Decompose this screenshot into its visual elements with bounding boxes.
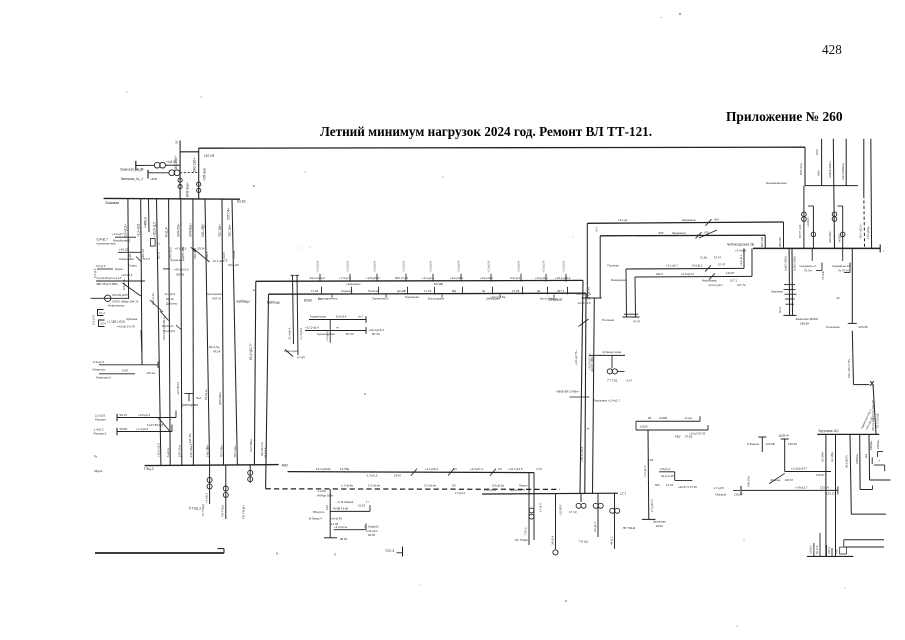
breaker box small — [151, 239, 156, 247]
station tick S8 on line-1 — [520, 274, 522, 282]
wire through generator — [91, 297, 129, 299]
wire stub x=141 lower — [140, 330, 143, 352]
wire tick y=397 — [570, 396, 590, 398]
svg-text:+6в-37,5 27,46: +6в-37,5 27,46 — [678, 485, 697, 489]
station tick S1 on line-1 — [319, 274, 321, 282]
wire riser x=833.3 (full) — [833, 139, 834, 249]
svg-text:Чердаклы 2Л: Чердаклы 2Л — [832, 264, 850, 268]
svg-text:ЗЛ,34: ЗЛ,34 — [197, 247, 205, 251]
wire feeder F5 from bus Базовая — [181, 199, 182, 465]
svg-text:325-Л5вУ: 325-Л5вУ — [828, 231, 832, 243]
svg-text:ТУ ТЭЦ2: ТУ ТЭЦ2 — [201, 504, 205, 517]
svg-text:2х(АС-330)+: 2х(АС-330)+ — [793, 255, 797, 271]
svg-text:0,5Р: 0,5Р — [138, 167, 144, 171]
wire pair drop x=297 — [297, 275, 298, 355]
svg-text:+13,1+j13,4: +13,1+j13,4 — [576, 292, 592, 296]
crossing mark Ж — [870, 381, 874, 386]
svg-text:120,5В: 120,5В — [766, 442, 775, 446]
svg-text:2,9+j13,2: 2,9+j13,2 — [484, 488, 496, 492]
wire feeder F9 from bus Базовая — [232, 199, 237, 465]
svg-text:+0,5+j0,5: +0,5+j0,5 — [175, 247, 187, 251]
svg-text:6+j2,3+: 6+j2,3+ — [166, 447, 170, 457]
wire rows y=421 — [636, 420, 700, 422]
wire stub x=555.5 — [555, 494, 557, 549]
svg-text:ЦРП-ЗВ2+: ЦРП-ЗВ2+ — [218, 391, 222, 405]
svg-text:62Л-185: 62Л-185 — [760, 236, 764, 247]
svg-text:Михайловка2: Михайловка2 — [113, 239, 131, 243]
svg-text:257,04+: 257,04+ — [227, 208, 231, 220]
svg-text:ВЛ,39: ВЛ,39 — [177, 272, 185, 276]
svg-text:С3,4: С3,4 — [100, 322, 106, 326]
wire drop to Бугульма x=876 — [873, 385, 876, 434]
svg-text:Кузнечиха: Кузнечиха — [171, 258, 185, 262]
svg-text:189,5#: 189,5# — [800, 322, 809, 326]
svg-text:17,04: 17,04 — [424, 289, 432, 293]
svg-text:363-24Л: 363-24Л — [778, 237, 782, 247]
svg-text:4Л,34: 4Л,34 — [213, 350, 221, 354]
svg-text:Сергиевская: Сергиевская — [206, 292, 223, 296]
svg-text:1,7+j0,4в: 1,7+j0,4в — [341, 484, 353, 488]
wire row С.Омара — [334, 529, 367, 531]
svg-text:Грозящая: Грозящая — [826, 325, 840, 329]
svg-text:+41+j12,3: +41+j12,3 — [450, 276, 463, 280]
wire riser x=821.6 — [821, 139, 823, 186]
svg-text:Нефтекачка: Нефтекачка — [108, 304, 125, 308]
svg-text:+4+j0,3: +4+j0,3 — [204, 493, 208, 503]
svg-text:17,04: 17,04 — [311, 289, 319, 293]
svg-text:84,2-j25Л+: 84,2-j25Л+ — [845, 455, 849, 468]
svg-text:68,6/64,4+: 68,6/64,4+ — [260, 441, 264, 456]
svg-text:Тюрнясево: Тюрнясево — [405, 295, 420, 299]
wire feeder Бугульма x=850 — [850, 434, 851, 514]
wire diagonal lower — [160, 311, 169, 321]
svg-text:97в-39-j10Л: 97в-39-j10Л — [112, 293, 128, 297]
svg-text:+43,29: +43,29 — [119, 247, 129, 251]
svg-text:15,03: 15,03 — [358, 503, 365, 507]
wire row Рассвет-1 — [117, 417, 176, 419]
svg-text:ОРВИНЯ: ОРВИНЯ — [549, 298, 563, 302]
svg-text:7Б7-ЗМ+: 7Б7-ЗМ+ — [218, 224, 222, 237]
generator G2 (double circle) — [169, 170, 175, 176]
wire drop x=583 to lower tie — [580, 280, 583, 493]
wire diagonal branch — [123, 283, 141, 296]
wire connector row1 to bus — [743, 248, 745, 268]
svg-text:14Б-З独+: 14Б-З独+ — [204, 444, 209, 457]
wire Грозящая drop lower — [852, 331, 853, 385]
svg-text:Пал: Пал — [196, 396, 202, 400]
cross tick 3 — [785, 298, 795, 300]
svg-text:1517-187-17ЛУ+: 1517-187-17ЛУ+ — [847, 358, 851, 378]
svg-text:+4Л: +4Л — [835, 549, 839, 554]
tick ДОБ — [781, 438, 789, 440]
station tick S5 on line-2 — [434, 287, 436, 295]
svg-text:363-185+: 363-185+ — [174, 156, 178, 170]
CT circles on column A — [178, 178, 182, 182]
svg-text:+2Л-ЗВ,14: +2Л-ЗВ,14 — [176, 382, 180, 395]
svg-text:+41+j1,2 Ба: +41+j1,2 Ба — [490, 295, 505, 299]
svg-text:В9+j4,2+: В9+j4,2+ — [313, 510, 325, 514]
bracket mark 2 — [849, 263, 851, 273]
wire row Юматово 1 — [99, 364, 158, 366]
svg-text:+3,1+j2,4: +3,1+j2,4 — [402, 260, 406, 272]
terminal bar Рассвет-2 — [116, 428, 118, 435]
svg-text:44-j3,2: 44-j3,2 — [609, 536, 613, 545]
svg-text:Дубьязы: Дубьязы — [166, 302, 177, 306]
wire row y=237 — [115, 236, 136, 238]
svg-text:+15,1+j29,4: +15,1+j29,4 — [555, 276, 571, 280]
wire CT column x=803.9 — [803, 186, 805, 249]
terminal bar left — [740, 486, 742, 495]
wire right horizontal y=480 — [870, 479, 891, 481]
svg-text:Турминская: Турминская — [310, 315, 327, 319]
wire Заинск column 1 — [788, 248, 791, 315]
CT pair on stub 3 — [248, 470, 253, 475]
station tick S1 on line-2 — [321, 287, 323, 295]
svg-text:1,7+j0,5: 1,7+j0,5 — [714, 486, 725, 490]
svg-text:АС-240+: АС-240+ — [821, 451, 825, 462]
svg-text:Новозареч: Новозареч — [347, 282, 361, 286]
svg-text:Бугульма 110: Бугульма 110 — [819, 429, 839, 433]
svg-text:2в: 2в — [837, 296, 841, 300]
svg-text:7Б7-ЗН+: 7Б7-ЗН+ — [233, 445, 237, 457]
svg-text:Летний минимум нагрузок 2024 г: Летний минимум нагрузок 2024 год. Ремонт… — [320, 124, 652, 139]
wire stub b5 — [831, 548, 833, 556]
svg-text:Заинская_№_1: Заинская_№_1 — [121, 177, 144, 181]
svg-text:Черемшанская: Черемшанская — [766, 181, 787, 185]
wire feeder Бугульма x=825.9 — [825, 434, 827, 556]
CT circle on 555.5 — [553, 550, 558, 555]
svg-text:Заинская: Заинская — [653, 519, 666, 523]
svg-text:+3,1+j2,4: +3,1+j2,4 — [457, 260, 461, 272]
svg-text:24Л-37а+: 24Л-37а+ — [177, 223, 181, 237]
wire row y=281 ladder top — [96, 280, 145, 282]
svg-text:Базовая: Базовая — [106, 201, 120, 205]
wire stub b1 — [813, 543, 815, 556]
wire feeder F7 from bus Базовая — [205, 199, 210, 465]
wire Полянки row-2 — [635, 275, 752, 278]
station tick S7 on line-2 — [492, 287, 494, 295]
svg-text:3,8+j5,4: 3,8+j5,4 — [660, 467, 670, 471]
svg-text:+4,2+j0,4+: +4,2+j0,4+ — [334, 525, 348, 529]
svg-text:Арбанка: Арбанка — [126, 317, 138, 321]
svg-text:240/Ба+: 240/Ба+ — [870, 440, 873, 450]
svg-text:Карамалы: Карамалы — [682, 218, 696, 222]
wire step vertical — [674, 472, 676, 481]
svg-text:9а: 9а — [482, 289, 486, 293]
hook on y=489.5 — [872, 486, 874, 490]
svg-text:НАЯдн 163н: НАЯдн 163н — [317, 493, 334, 497]
tick В-Ключи — [176, 325, 181, 330]
bus Бугульма 110 — [817, 433, 879, 435]
wire rows left bracket — [635, 421, 637, 430]
svg-text:Карамалы: Карамалы — [672, 231, 686, 235]
svg-text:+1,4+j0,9: +1,4+j0,9 — [136, 427, 148, 431]
svg-text:Приложение № 260: Приложение № 260 — [726, 109, 843, 124]
svg-text:2х25А: 2х25А — [640, 425, 648, 429]
wire feeder F2 from bus Базовая — [141, 199, 142, 365]
svg-text:9а: 9а — [537, 289, 541, 293]
svg-text:АБА: АБА — [816, 170, 820, 176]
svg-text:7Л-Ялв: 7Л-Ялв — [821, 271, 825, 280]
svg-text:+24,1+j13,1: +24,1+j13,1 — [708, 283, 723, 287]
svg-text:Чердаклы 2: Чердаклы 2 — [799, 264, 816, 268]
svg-text:В7,93: В7,93 — [346, 332, 354, 336]
wire bottom frame segment — [95, 552, 224, 554]
svg-text:2Б: 2Б — [648, 416, 652, 420]
svg-text:+9,8+j25,6: +9,8+j25,6 — [366, 276, 380, 280]
svg-text:+13ЛвЛ: +13ЛвЛ — [806, 217, 810, 227]
svg-text:24Л-3Ба+: 24Л-3Ба+ — [189, 223, 193, 237]
wire short stub x=148 — [148, 199, 151, 232]
wire top 500kV tie line — [199, 147, 805, 148]
svg-text:14УЛ: 14УЛ — [394, 474, 401, 478]
generator circle left — [105, 295, 111, 301]
svg-text:+0,5+j0,3: +0,5+j0,3 — [138, 413, 150, 417]
svg-text:97,82: 97,82 — [685, 434, 693, 438]
svg-text:139,5Р: 139,5Р — [734, 492, 743, 496]
svg-text:+3,1+j2,4: +3,1+j2,4 — [429, 260, 433, 272]
svg-text:В-Омар 4: В-Омар 4 — [309, 516, 322, 520]
svg-text:+3,1+j2,4: +3,1+j2,4 — [316, 260, 320, 272]
svg-text:+24Л-25а: +24Л-25а — [188, 433, 192, 445]
svg-text:Тюлячи: Тюлячи — [368, 289, 379, 293]
svg-text:24Л-ЗВа+: 24Л-ЗВа+ — [249, 438, 253, 452]
wire bottom tick Полянки 2 — [624, 313, 638, 315]
svg-text:+3,1+j2,4: +3,1+j2,4 — [517, 260, 521, 272]
wire end step Рассвет-1 — [175, 411, 177, 418]
station tick S2 on line-1 — [349, 274, 351, 282]
svg-text:З-Юдино: З-Юдино — [747, 442, 760, 446]
svg-text:ЗВУ-15-j2,9 ЗВ9+: ЗВУ-15-j2,9 ЗВ9+ — [96, 282, 119, 286]
wire Заинск column 2 — [791, 248, 794, 315]
svg-text:Кубенкутская: Кубенкутская — [603, 350, 622, 354]
svg-text:+14,7-j13,5: +14,7-j13,5 — [508, 467, 523, 471]
svg-text:Чистополь2: Чистополь2 — [309, 276, 325, 280]
CT pair on stub — [207, 478, 212, 483]
svg-text:+5,1+j2: +5,1+j2 — [618, 218, 628, 222]
svg-text:ВЛ,29: ВЛ,29 — [166, 297, 174, 301]
station tick S10 on line-2 — [567, 287, 569, 295]
scan speckles — [679, 13, 681, 15]
wire Тракторная stub — [188, 394, 190, 402]
svg-text:13,7-j29,8в: 13,7-j29,8в — [316, 467, 331, 471]
svg-text:428: 428 — [822, 42, 842, 57]
svg-text:ВУАЗ: ВУАЗ — [304, 298, 312, 302]
svg-text:+45,9+j21,9: +45,9+j21,9 — [174, 268, 189, 272]
wire step cluster y=480 — [675, 479, 693, 481]
generator lead G1 terminal bar — [135, 161, 137, 171]
box on bottom — [840, 547, 847, 554]
svg-text:+4,5+j0,7: +4,5+j0,7 — [112, 232, 124, 236]
wire ДОБ column — [784, 439, 786, 472]
wire right horizontal y=547 — [845, 546, 884, 548]
svg-text:14,5-j8,2: 14,5-j8,2 — [692, 264, 703, 268]
svg-text:Т2У-3: Т2У-3 — [385, 549, 394, 553]
wire stub x=529 Т2У — [528, 472, 530, 545]
svg-text:-0,9+j0,4: -0,9+j0,4 — [93, 360, 105, 364]
svg-text:Безводовка: Безводовка — [611, 278, 627, 282]
svg-text:+4,2-j27,4: +4,2-j27,4 — [470, 467, 483, 471]
svg-text:ЗЛ,2-j1Л: ЗЛ,2-j1Л — [228, 263, 239, 267]
svg-text:ЦК-ДВ: ЦК-ДВ — [397, 289, 406, 293]
CT pair on stub 2 — [223, 486, 228, 491]
svg-text:Тюрнясево 2: Тюрнясево 2 — [372, 297, 389, 301]
wire upper tie outer — [587, 222, 783, 223]
svg-text:9Л: 9Л — [453, 467, 457, 471]
svg-text:5Л-19,2+: 5Л-19,2+ — [204, 389, 208, 400]
svg-text:Кайбицы: Кайбицы — [267, 300, 281, 304]
svg-text:БакХран: БакХран — [772, 289, 784, 293]
bus ТЭЦ-3 110kV — [145, 465, 279, 466]
wire bottom tick Полянки — [623, 316, 640, 318]
wire riser x=846.2 — [845, 139, 847, 186]
svg-text:+3,1: +3,1 — [595, 226, 599, 232]
svg-text:5в-17: 5в-17 — [778, 306, 782, 313]
cross tick 4 — [784, 284, 795, 286]
svg-text:+4Л9,3: +4Л9,3 — [144, 217, 148, 228]
svg-text:ДОБ-4+: ДОБ-4+ — [779, 433, 790, 437]
svg-text:+1,4+j0,6: +1,4+j0,6 — [299, 328, 303, 340]
svg-text:6,1Л: 6,1Л — [144, 257, 150, 261]
svg-text:27,45: 27,45 — [666, 483, 673, 487]
station tick S2 on line-2 — [351, 287, 353, 295]
svg-text:2Б1 ИСД: 2Б1 ИСД — [113, 319, 125, 323]
svg-text:63,63: 63,63 — [237, 200, 246, 204]
svg-text:Юматово: Юматово — [93, 367, 106, 371]
svg-text:Н. В-Омар2: Н. В-Омар2 — [338, 500, 354, 504]
wire bottom tick Омары — [324, 537, 337, 539]
tick top x=292.5 — [291, 274, 295, 276]
svg-text:+12,2+j5,4: +12,2+j5,4 — [305, 326, 319, 330]
wire stub below bus x=209.6 — [209, 465, 211, 504]
bottom tick Заинск — [784, 314, 797, 316]
wire G2 dashed to second column — [180, 171, 199, 174]
wire CT column x=842.7 — [838, 205, 843, 207]
cross tick 1 — [784, 289, 796, 291]
svg-text:АС-185+: АС-185+ — [830, 451, 834, 462]
CT circle 813.4 — [811, 232, 816, 237]
tick Грозящая — [848, 322, 857, 324]
svg-text:9Л: 9Л — [452, 484, 456, 488]
wire drop Омары from dashed line — [329, 489, 331, 538]
slash on outer tie — [706, 219, 712, 226]
svg-text:21,5в: 21,5в — [700, 256, 707, 260]
tick below line-2 2 — [385, 294, 387, 297]
svg-text:120,57: 120,57 — [785, 478, 794, 482]
cross tick 5 — [786, 303, 795, 305]
svg-text:Чебоксарская 2В: Чебоксарская 2В — [727, 243, 755, 247]
wire trunk x=255 from main bus corner to ТЭЦ bus — [254, 281, 255, 464]
wire right corner drop to Чебоксарская bus — [804, 147, 806, 185]
svg-text:7Б7-ЗН+: 7Б7-ЗН+ — [228, 224, 232, 237]
svg-text:у1: у1 — [157, 242, 160, 246]
tick Ключищи — [191, 247, 196, 252]
bracket mark 1 — [821, 263, 823, 271]
svg-text:+41+j14,4: +41+j14,4 — [480, 276, 493, 280]
svg-text:0,3-j7,5: 0,3-j7,5 — [92, 315, 96, 325]
wire trunk x=268 from second bus to dashed line — [266, 294, 269, 489]
svg-text:68,6Л-4+: 68,6Л-4+ — [264, 446, 268, 458]
wire Мокрые row y=490.4 — [741, 489, 838, 491]
svg-text:Тресковка +2,4+j1,7: Тресковка +2,4+j1,7 — [594, 399, 621, 403]
svg-text:17,7: 17,7 — [620, 492, 626, 496]
wire generator G1 lead — [136, 164, 154, 166]
svg-text:АЖ-2ЭФЖА+: АЖ-2ЭФЖА+ — [841, 162, 845, 180]
wire stub x=598 — [597, 493, 599, 537]
wire arrow mark — [733, 489, 740, 491]
wire row1 end bracket — [365, 316, 367, 323]
slash on Полянки rows — [705, 265, 711, 271]
svg-text:Мокрая: Мокрая — [771, 478, 781, 482]
bus Базовая 110kV — [104, 197, 240, 200]
wire G1 to bus column — [166, 164, 181, 166]
svg-text:500: 500 — [659, 231, 664, 235]
wire З-Юдино stub — [761, 437, 763, 452]
svg-text:6+j2,3+: 6+j2,3+ — [164, 226, 168, 237]
svg-text:6+: 6+ — [94, 454, 98, 458]
svg-text:5,4+j3,4: 5,4+j3,4 — [336, 315, 347, 319]
end bracket С.Омара row — [365, 523, 367, 529]
tick below line-2 1 — [331, 294, 333, 297]
svg-text:7Б7-ЗМ+: 7Б7-ЗМ+ — [219, 445, 223, 458]
wire row2 end bracket — [365, 327, 367, 334]
terminal bar T2У-3 — [402, 547, 404, 557]
svg-text:Коваловка: Коваловка — [119, 257, 134, 261]
wire short jumper bus — [180, 151, 199, 153]
capacitor battery C1,2 symbol — [98, 310, 104, 316]
wire feeder Бугульма x=860.1 with corner — [859, 434, 861, 489]
svg-text:46М: 46М — [282, 463, 289, 467]
svg-text:ТЭ ЦЗ: ТЭ ЦЗ — [579, 540, 588, 544]
CT pair at 614.5 — [610, 508, 615, 513]
station tick S3 on line-1 — [376, 274, 378, 282]
svg-text:ЖК-Л: ЖК-Л — [656, 272, 663, 276]
svg-text:107,1: 107,1 — [730, 278, 737, 282]
terminal bar Рассвет-1 — [116, 414, 118, 421]
station tick S4 on line-1 — [405, 274, 407, 282]
svg-text:12,4-j6,2: 12,4-j6,2 — [164, 292, 175, 296]
svg-text:13,0в 13,6: 13,0в 13,6 — [578, 301, 592, 305]
station tick S6 on line-2 — [462, 287, 464, 295]
svg-text:+5Л-Зав: +5Л-Зав — [202, 168, 206, 181]
svg-text:НВ5Б-ВЛ 17МВт+: НВ5Б-ВЛ 17МВт+ — [557, 390, 580, 394]
svg-text:+14+j13,7: +14+j13,7 — [795, 485, 808, 489]
svg-text:+3,1+j2,4: +3,1+j2,4 — [373, 260, 377, 272]
wire corner outer down — [586, 223, 588, 298]
svg-text:0,4+j0,45: 0,4+j0,45 — [330, 516, 342, 520]
svg-text:пч 7: пч 7 — [358, 315, 364, 319]
CT pair on 529 — [529, 508, 534, 513]
CT circle 842.7 — [840, 232, 845, 237]
svg-text:+5Л-19,2: +5Л-19,2 — [169, 247, 173, 259]
wire tick right of GT — [618, 370, 625, 372]
svg-text:п: п — [334, 553, 336, 557]
wire diagonal Кузнечиха — [193, 249, 209, 263]
wire stub x=534 (end of line A) — [533, 473, 535, 540]
wire upper bridge y=185.6 — [805, 185, 858, 187]
svg-text:4,7Л: 4,7Л — [536, 467, 542, 471]
CT circle pair 803.9 — [802, 212, 807, 217]
wire CT column x=813.4 with top tick — [808, 205, 813, 207]
svg-text:+65,2-j10,4: +65,2-j10,4 — [580, 447, 584, 462]
svg-text:+ЛЗ-j1,5д: +ЛЗ-j1,5д — [207, 345, 220, 349]
svg-text:ГВ ТЭЦ0+: ГВ ТЭЦ0+ — [242, 505, 246, 519]
svg-text:17 13: 17 13 — [569, 510, 577, 514]
wire stub b2 — [819, 533, 821, 556]
wire riser x=863.8 (dashed lower part) — [863, 139, 865, 195]
wire feeder F3 from bus Базовая — [157, 199, 161, 465]
svg-text:+2Л-10,9: +2Л-10,9 — [121, 273, 133, 277]
